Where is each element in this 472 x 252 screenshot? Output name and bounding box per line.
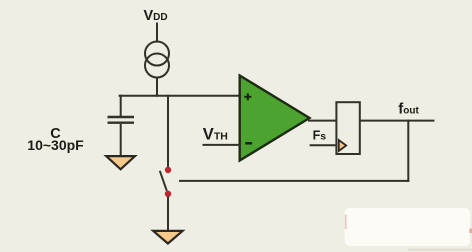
- ground (switch): [153, 231, 182, 244]
- wire VTH to - input: [203, 144, 241, 146]
- switch bottom contact (red): [165, 191, 171, 197]
- ground (capacitor): [106, 156, 135, 169]
- wire capacitor to ground: [120, 124, 122, 157]
- op-amp - pin mark: [245, 142, 252, 144]
- op-amp + pin mark: [244, 93, 251, 100]
- feedback wire vertical: [407, 120, 409, 182]
- watermark blob: [345, 208, 471, 246]
- wire top rail to + input: [119, 95, 241, 97]
- feedback wire horizontal to switch: [179, 180, 409, 182]
- wire top rail to switch: [167, 95, 169, 167]
- svg-text:10~30pF: 10~30pF: [27, 137, 84, 153]
- svg-text:Fs: Fs: [313, 129, 327, 143]
- divider U2 (flip-flop box): [336, 102, 359, 154]
- clock input triangle: [339, 140, 346, 151]
- op-amp U1: [240, 76, 310, 161]
- wire Fs to clock input: [310, 144, 337, 146]
- wire VDD to current source: [156, 23, 158, 43]
- switch lever: [160, 171, 167, 191]
- wire current source to top rail: [156, 78, 158, 97]
- wire divider output to fout: [360, 120, 435, 122]
- capacitor C plates: [108, 117, 135, 123]
- wire switch to ground: [167, 197, 169, 232]
- current source I1: [145, 42, 169, 78]
- switch top contact (red): [165, 167, 171, 173]
- wire op-amp output to divider: [308, 120, 337, 122]
- wire top rail to capacitor: [120, 95, 122, 116]
